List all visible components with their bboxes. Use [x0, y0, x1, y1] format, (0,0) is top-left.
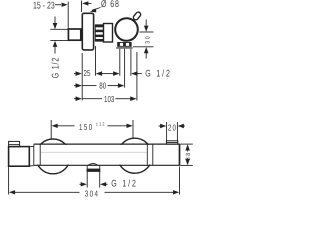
right handle circle [117, 138, 152, 173]
outlet thread block [117, 42, 131, 47]
outlet G1/2 left arrowhead [113, 71, 119, 76]
cartridge ribs [95, 25, 103, 41]
label 80 [99, 81, 106, 91]
dim 15-23 tail left [55, 4, 61, 6]
bar body mask [28, 145, 177, 165]
left knob tab [9, 141, 20, 146]
dim 15-23 tail right [88, 2, 92, 4]
dim 150 right arrowhead [127, 124, 133, 128]
dim 304 line left [14, 191, 80, 193]
end cap right edge [179, 144, 181, 165]
outlet dim left arrow [80, 183, 82, 185]
svg-text:25: 25 [84, 68, 91, 78]
dim 15-23 label [33, 0, 55, 11]
pipe nipple [68, 29, 80, 40]
dim 20 right extension [176, 122, 178, 141]
dim 25 left arrow [74, 73, 76, 75]
svg-text:150: 150 [79, 122, 94, 132]
cartridge outline [95, 25, 103, 41]
dim 150 tail left [57, 125, 75, 127]
label 20 [168, 123, 177, 133]
bar highlight line [41, 151, 147, 153]
svg-text:Ø 68: Ø 68 [101, 0, 120, 10]
dim 20 left extension [166, 122, 168, 141]
dim 25 right arrow with shared tail [96, 71, 102, 76]
left handle circle [36, 139, 71, 174]
svg-text:G 1/2: G 1/2 [145, 68, 171, 79]
dim 15-23 right arrowhead [82, 1, 88, 5]
right collar front vertical [146, 144, 148, 165]
outlet G1/2 right arrowhead [131, 71, 137, 76]
pipe top reference line [50, 28, 68, 30]
extension line outlet center [124, 49, 126, 88]
bar top line [34, 143, 180, 145]
Ø68 leader line [92, 8, 101, 11]
dim 80 left arrow [74, 85, 76, 87]
label 304 [85, 189, 100, 199]
extension line outlet right [130, 49, 132, 76]
neck bottom line [29, 165, 34, 167]
left knob tab inner line [9, 144, 20, 146]
neck line knob to collar [29, 146, 34, 148]
dim 304 line right [105, 191, 175, 193]
label 103 [104, 94, 114, 104]
svg-text:15 - 23: 15 - 23 [33, 0, 55, 11]
svg-text:G 1/2: G 1/2 [111, 178, 137, 189]
label G 1/2 left (rotated) [50, 57, 61, 78]
left collar rear vertical [39, 144, 41, 165]
dim 80 line left [82, 85, 96, 87]
extension line escutcheon back lower [81, 53, 83, 101]
dim 80 line right [108, 85, 119, 87]
dim 20 right arrowhead [178, 124, 184, 128]
dim 38 top ref line [180, 143, 193, 145]
dim 304 left arrowhead [9, 190, 15, 194]
outlet dim right arrow [100, 182, 106, 186]
svg-text:38: 38 [185, 151, 192, 160]
handle tab [132, 11, 141, 21]
dim 38 bottom ref line [180, 164, 193, 166]
bottom outlet right side [99, 165, 101, 187]
outlet flange [116, 47, 132, 49]
dim 38 upper arrow [185, 144, 190, 150]
svg-text:304: 304 [85, 189, 100, 199]
dim 30 upper arrow [145, 20, 147, 26]
dim 103 right arrow [130, 96, 136, 101]
Ø68 leader arrowhead [90, 9, 97, 12]
handle circle [115, 18, 138, 41]
pipe bottom reference line [50, 40, 68, 42]
escutcheon back extension line [81, 1, 83, 13]
pipe dim up arrow [53, 41, 58, 47]
outlet G1/2 tail [136, 73, 141, 75]
dim 103 line right [115, 98, 131, 100]
label 25 [84, 68, 91, 78]
dim 150 right extension [132, 120, 134, 138]
escutcheon plate [82, 13, 93, 50]
left knob body [9, 147, 30, 167]
dim 15-23 left arrowhead [61, 2, 67, 6]
end cap tab inner line [166, 142, 177, 144]
pipe dim down arrow [54, 17, 56, 24]
outlet thread white cutout right [126, 43, 129, 46]
label G 1/2 bottom [111, 178, 137, 189]
dim 304 right arrowhead [173, 190, 179, 194]
bottom outlet left side [86, 165, 88, 187]
bottom outlet dome [88, 164, 97, 166]
dim 38 lower arrow [187, 158, 189, 159]
dim 304 left extension [8, 167, 10, 195]
svg-text:30: 30 [144, 35, 151, 44]
label 38 (rotated) [185, 151, 192, 160]
dim 20 left arrowhead [160, 124, 166, 128]
dim 20 tail right [183, 125, 185, 127]
end cap tab [166, 141, 177, 144]
label +-12 superscript [96, 122, 106, 128]
dim 80 right arrow [118, 83, 124, 88]
outlet thread white cutout left [120, 43, 123, 46]
dim 150 left extension [50, 120, 52, 139]
valve body [104, 24, 113, 43]
dim 103 left arrow [74, 98, 76, 100]
label 150 [79, 122, 94, 132]
svg-text:20: 20 [168, 123, 177, 133]
dim 103 line left [82, 98, 102, 100]
right collar rear vertical [152, 144, 154, 165]
svg-text:G 1/2: G 1/2 [50, 57, 61, 78]
dim 20 tail left [159, 125, 161, 127]
extension line cartridge end [95, 46, 97, 76]
extension line handle right [136, 52, 138, 101]
extension line outlet left [119, 49, 121, 76]
label Ø 68 [101, 0, 120, 10]
label 30 (rotated) [144, 35, 151, 44]
label G 1/2 right [145, 68, 171, 79]
dim 150 left arrowhead [52, 124, 58, 128]
dim 30 lower arrow [144, 47, 149, 53]
wall line [67, 2, 69, 29]
svg-text:±12: ±12 [96, 122, 106, 128]
bottom outlet nut band [87, 169, 101, 172]
left collar front vertical [33, 144, 35, 165]
bar bottom line [34, 164, 180, 166]
dim 150 tail right [108, 125, 128, 127]
dim 30 bottom ref line [133, 46, 154, 48]
dim 30 top ref line [140, 31, 154, 33]
svg-text:103: 103 [104, 94, 114, 104]
dim 304 right extension [179, 167, 181, 195]
svg-text:80: 80 [99, 81, 106, 91]
